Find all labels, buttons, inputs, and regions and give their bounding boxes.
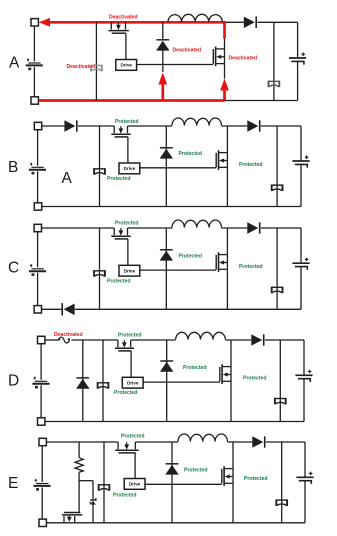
wire: bottom rail black section (row A) xyxy=(225,100,298,102)
inductor L1 (row C) xyxy=(172,220,222,228)
load branch wire (row C) xyxy=(276,228,278,309)
wire: red current path, bottom rail (row A) xyxy=(39,99,225,102)
wire: top rail to boost diode (row C) xyxy=(222,227,248,229)
svg-text:Deactivated: Deactivated xyxy=(229,56,258,62)
svg-text:Protected: Protected xyxy=(118,333,142,339)
wire: top rail (row B) xyxy=(78,125,172,127)
boost diode D2 (row E) xyxy=(252,436,264,447)
output capacitor C_out (row D) xyxy=(295,370,312,382)
capacitor C_in branch (row E) xyxy=(99,442,110,523)
output capacitor C_out (row C) xyxy=(292,258,309,270)
red current arrow up from bottom rail through Q2 source (row A) xyxy=(220,79,229,101)
svg-text:Protected: Protected xyxy=(121,434,145,440)
drive block (row C) xyxy=(119,265,140,276)
wire: top rail output section (row D) xyxy=(265,339,304,341)
input bypass diode D5 branch (row D) xyxy=(82,340,84,422)
svg-text:Protected: Protected xyxy=(113,492,137,498)
boost MOSFET Q2 (row A) xyxy=(213,47,224,67)
svg-text:Drive: Drive xyxy=(129,482,141,487)
freewheel diode D1 (row D) xyxy=(160,361,173,372)
output capacitor C_out (row E) xyxy=(296,472,313,484)
svg-text:Protected: Protected xyxy=(184,468,208,474)
wire: bottom rail (row E) xyxy=(46,522,305,524)
input bypass diode D5 (row D) xyxy=(76,378,89,389)
fuse / thermistor element (row D) xyxy=(58,337,70,343)
svg-text:A: A xyxy=(62,170,73,187)
capacitor C_in branch (row B) xyxy=(94,126,105,207)
svg-text:Protected: Protected xyxy=(239,264,263,270)
output capacitor C_out (row B) xyxy=(292,155,309,167)
wire: drive output to Q2 gate (row D) xyxy=(143,381,220,383)
wire: zener to bottom rail (row E) xyxy=(92,504,94,522)
wire: top rail (row E) xyxy=(46,441,178,443)
wire: gate of Q1 to drive (row D) xyxy=(130,351,132,377)
node: input - terminal (row A) xyxy=(31,97,38,104)
gate resistor branch wire (row E) xyxy=(78,442,80,513)
load branch wire (row E) xyxy=(281,442,283,523)
svg-text:Protected: Protected xyxy=(107,279,131,285)
inductor L1 (row A) xyxy=(168,14,222,22)
output capacitor branch wire (row E) xyxy=(304,442,306,523)
buck MOSFET Q1 (row A) xyxy=(108,22,128,33)
wire: battery branch (row D) xyxy=(40,344,42,418)
wire: bottom rail left of reverse diode (row C) xyxy=(42,308,62,310)
svg-text:Protected: Protected xyxy=(179,253,203,259)
svg-text:Drive: Drive xyxy=(127,381,139,386)
svg-text:Protected: Protected xyxy=(107,176,131,182)
battery V_in (row A) xyxy=(26,58,43,70)
wire: top rail output section (row A) xyxy=(257,21,297,23)
boost diode D2 (row A) xyxy=(244,17,256,28)
node: input + terminal (row D) xyxy=(38,336,45,343)
node: input + terminal (row A) xyxy=(31,19,38,26)
wire: top rail to boost diode (row A) xyxy=(226,21,244,23)
output capacitor branch wire (row D) xyxy=(303,340,305,422)
drive block (row B) xyxy=(119,163,140,174)
output sense capacitor (row B) xyxy=(272,184,283,191)
wire: gate of Q1 to drive (row A) xyxy=(125,33,127,59)
svg-text:Protected: Protected xyxy=(114,390,138,396)
input series diode D3 (row B) xyxy=(64,120,76,131)
wire: gate node to zener (row E) xyxy=(79,481,93,499)
wire: drive output to Q2 gate (row A) xyxy=(137,64,214,66)
buck MOSFET Q1 (row E) xyxy=(115,442,138,453)
wire: drive output to Q2 gate (row E) xyxy=(145,483,222,485)
svg-text:Drive: Drive xyxy=(120,63,132,68)
gate resistor R1 (row E) xyxy=(75,458,83,473)
svg-text:Protected: Protected xyxy=(115,119,139,125)
svg-text:E: E xyxy=(8,475,18,492)
wire: top rail (row D) xyxy=(72,339,176,341)
wire: top rail to boost diode (row E) xyxy=(228,441,253,443)
node: input - terminal (row C) xyxy=(34,306,41,313)
wire: battery branch (row E) xyxy=(41,446,43,519)
node: input - terminal (row E) xyxy=(39,519,46,526)
freewheel diode D1 (row C) xyxy=(160,250,173,261)
wire: gate of Q1 to drive (row E) xyxy=(134,453,136,479)
drive block (row A) xyxy=(116,60,137,71)
battery V_in (row B) xyxy=(29,163,46,175)
freewheel diode D1 (row A) xyxy=(156,40,169,51)
svg-text:Drive: Drive xyxy=(124,269,136,274)
reverse protection MOSFET Q3 on return rail (row E) xyxy=(62,513,82,523)
wire: top rail output section (row E) xyxy=(266,441,305,443)
svg-text:D: D xyxy=(8,373,19,390)
svg-text:Protected: Protected xyxy=(179,151,203,157)
red current path into Q2 drain (row A) xyxy=(223,22,226,38)
freewheel diode branch wire (row E) xyxy=(171,442,173,523)
boost MOSFET Q2 (row B) xyxy=(216,150,227,170)
svg-text:Deactivated: Deactivated xyxy=(54,332,83,338)
svg-text:Protected: Protected xyxy=(243,375,267,381)
reverse blocking diode D4 on return rail (row C) xyxy=(62,303,74,315)
output capacitor branch wire (row B) xyxy=(300,126,302,207)
svg-text:Protected: Protected xyxy=(239,162,263,168)
wire: top rail output section (row B) xyxy=(261,125,301,127)
wire: drive output to Q2 gate (row B) xyxy=(140,167,216,169)
boost diode D2 (row D) xyxy=(251,334,263,345)
output sense capacitor (row D) xyxy=(275,398,286,405)
svg-text:C: C xyxy=(8,260,19,277)
wire: gate of Q1 to drive (row C) xyxy=(127,239,129,265)
wire: red current path, top rail with left arrow (row A) xyxy=(39,18,226,27)
buck MOSFET Q1 (row B) xyxy=(111,126,131,137)
node: input + terminal (row E) xyxy=(39,438,46,445)
boost MOSFET Q2 (row D) xyxy=(220,364,231,384)
wire: battery branch (row A) xyxy=(33,26,35,97)
output capacitor branch wire (row C) xyxy=(300,228,302,309)
inductor L1 (row B) xyxy=(172,118,222,126)
capacitor C_in branch (row C) xyxy=(94,228,105,309)
buck MOSFET Q1 (row D) xyxy=(115,340,134,351)
battery V_in (row E) xyxy=(34,479,51,491)
wire: bottom rail (row D) xyxy=(45,421,304,423)
wire: top rail (row C) xyxy=(42,227,173,229)
freewheel diode branch wire (row D) xyxy=(166,340,168,422)
drive block (row D) xyxy=(122,377,143,388)
freewheel diode D1 (row B) xyxy=(160,148,173,159)
wire: battery branch (row C) xyxy=(37,232,39,306)
node: input + terminal (row B) xyxy=(34,122,41,129)
freewheel diode branch wire (row B) xyxy=(165,126,167,207)
red current arrow up through D1 branch (row A) xyxy=(158,73,167,101)
wire: Q2 drain/source branch (row B) xyxy=(226,126,228,207)
wire: gate of Q1 to drive (row B) xyxy=(127,137,129,163)
wire: top rail to boost diode (row D) xyxy=(225,339,251,341)
boost diode D2 (row C) xyxy=(247,222,259,233)
boost MOSFET Q2 (row C) xyxy=(216,252,227,272)
node: input - terminal (row B) xyxy=(34,203,41,210)
wire: bottom rail (row B) xyxy=(42,206,301,208)
output sense capacitor (row C) xyxy=(272,287,283,294)
svg-text:B: B xyxy=(8,159,18,176)
output capacitor C_out (row A) xyxy=(289,52,306,64)
gate clamp zener DZ (row E) xyxy=(90,498,96,505)
svg-text:A: A xyxy=(9,55,20,72)
battery V_in (row C) xyxy=(29,264,46,276)
output capacitor branch wire (row A) xyxy=(297,22,299,100)
svg-text:Protected: Protected xyxy=(115,221,139,227)
battery V_in (row D) xyxy=(32,377,49,389)
inductor L1 (row E) xyxy=(178,434,228,442)
inductor L1 (row D) xyxy=(176,332,226,339)
drive block (row E) xyxy=(124,479,145,490)
buck MOSFET Q1 (row C) xyxy=(111,228,131,239)
wire: top rail left (row B) xyxy=(42,125,65,127)
svg-text:Protected: Protected xyxy=(183,365,207,371)
wire: Q2 drain/source black segment (row A) xyxy=(224,39,226,79)
wire: drive output to Q2 gate (row C) xyxy=(140,269,216,271)
wire: freewheel diode branch (row A) xyxy=(162,22,164,72)
wire: top rail output section (row C) xyxy=(261,227,301,229)
node: input + terminal (row C) xyxy=(34,224,41,231)
freewheel diode branch wire (row C) xyxy=(165,228,167,309)
wire: Q2 drain/source branch (row C) xyxy=(226,228,228,309)
load branch wire (row A) xyxy=(273,22,275,100)
svg-text:Drive: Drive xyxy=(124,166,136,171)
capacitor C_in branch (row D) xyxy=(98,340,109,422)
wire: Q2 drain/source branch (row D) xyxy=(230,340,232,422)
wire: Q2 drain/source branch (row E) xyxy=(232,442,234,523)
capacitor C_in, deactivated gray (row A) xyxy=(91,22,102,100)
output sense capacitor (row E) xyxy=(276,499,287,506)
freewheel diode D1 (row E) xyxy=(165,464,178,475)
load branch wire (row B) xyxy=(276,126,278,207)
svg-text:Deactivated: Deactivated xyxy=(173,48,202,54)
wire: top rail left (row D) xyxy=(45,339,59,341)
boost MOSFET Q2 (row E) xyxy=(222,466,233,486)
wire: bottom rail right of reverse diode (row C) xyxy=(75,308,301,310)
wire: battery branch (row B) xyxy=(37,130,39,203)
node: input - terminal (row D) xyxy=(38,418,45,425)
output sense capacitor (row A) xyxy=(269,81,280,88)
load branch wire (row D) xyxy=(279,340,281,422)
svg-text:Deactivated: Deactivated xyxy=(109,14,138,20)
wire: top rail to boost diode (row B) xyxy=(222,125,248,127)
svg-text:Protected: Protected xyxy=(244,476,268,482)
boost diode D2 (row B) xyxy=(247,120,259,131)
